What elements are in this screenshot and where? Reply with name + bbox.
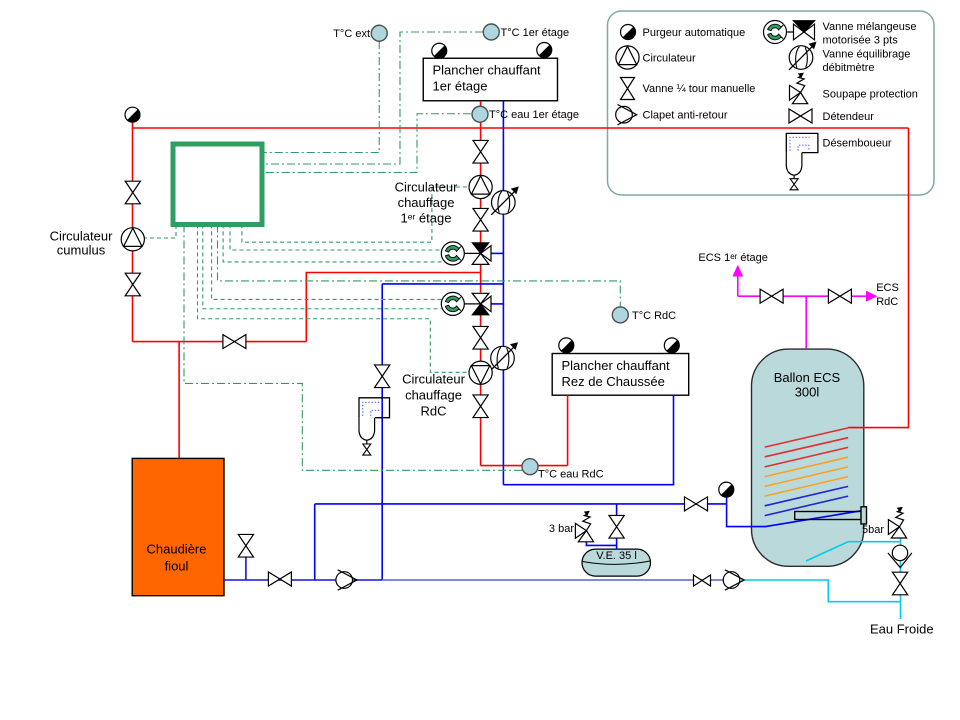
vanne V2 left column lower	[125, 273, 140, 296]
vanne V5 floor1 bottom	[473, 208, 488, 231]
sensor T-ext	[371, 25, 387, 41]
circulateur chauffage rdc	[469, 361, 492, 384]
svg-text:1er étage: 1er étage	[433, 79, 488, 94]
svg-text:Ballon ECS: Ballon ECS	[774, 370, 841, 385]
plancher chauffant 1er etage box	[423, 58, 557, 101]
wire blue crossover to desemboueur branch	[382, 283, 503, 285]
wire red rdc column	[480, 315, 482, 466]
vanne melangeuse motorisee rdc	[441, 292, 491, 315]
sensor T-1er-etage	[483, 24, 499, 40]
svg-text:chauffage: chauffage	[405, 388, 462, 403]
chaudiere fioul boiler	[132, 458, 224, 595]
wire blue boiler return bottom	[224, 579, 382, 581]
wire controller to circulateur cumulus	[143, 224, 176, 238]
svg-text:cumulus: cumulus	[57, 243, 106, 258]
svg-text:5bar: 5bar	[862, 524, 884, 536]
svg-text:motorisée 3 pts: motorisée 3 pts	[823, 35, 899, 47]
legend purgeur automatique icon	[621, 25, 636, 40]
svg-text:T°C ext: T°C ext	[333, 28, 370, 40]
controller regulator box	[173, 144, 262, 225]
tank coil red line 1	[765, 428, 848, 447]
tank coil blue line 2	[765, 496, 848, 515]
wire controller to motor1 lower	[223, 224, 442, 262]
svg-text:Soupape protection: Soupape protection	[823, 89, 918, 101]
wire red right drop to tank coil	[848, 128, 908, 428]
tank coil red line 2	[765, 438, 848, 457]
wire controller to motor2 upper	[212, 224, 442, 299]
wire red main supply top	[133, 122, 909, 128]
soupape 3 bar	[575, 511, 593, 542]
wire blue tank coil return	[727, 504, 862, 527]
circulateur cumulus	[121, 228, 144, 251]
svg-text:débitmètre: débitmètre	[823, 62, 875, 74]
PIPES	[133, 101, 909, 619]
wire sensor T-1er-etage to controller	[262, 32, 483, 164]
wire magenta ecs 1er etage riser	[737, 273, 739, 296]
svg-text:T°C RdC: T°C RdC	[632, 310, 676, 322]
vanne V13 cold water bowtie	[694, 575, 711, 586]
legend vanne equilibrage debitmetre icon	[789, 42, 817, 70]
svg-text:Plancher chauffant: Plancher chauffant	[562, 358, 671, 373]
svg-text:chauffage: chauffage	[398, 195, 455, 210]
wire controller to motor2 lower	[203, 224, 441, 308]
wire sensor T-eau-1er to controller	[262, 114, 471, 173]
vanne magenta ecs left	[760, 289, 783, 303]
legend circulateur icon	[616, 46, 639, 69]
vanne V6 rdc top	[473, 326, 488, 349]
wire red riser to mixing valves	[306, 273, 480, 342]
arrow magenta ecs 1er etage	[732, 265, 743, 277]
vanne V1 left column upper	[125, 181, 140, 204]
wire blue stub mixing valve 2	[492, 303, 504, 305]
purgeur automatique left column	[125, 107, 140, 122]
tank coil orange line 1	[765, 457, 848, 476]
wire red rdc supply horizontal	[481, 465, 568, 467]
svg-text:Détendeur: Détendeur	[823, 111, 875, 123]
svg-text:Vanne mélangeuse: Vanne mélangeuse	[823, 21, 917, 33]
svg-text:T°C eau RdC: T°C eau RdC	[538, 469, 604, 481]
wire controller to circulateur 1er etage	[242, 187, 471, 242]
wire cyan tank inlet	[806, 542, 901, 561]
svg-text:Circulateur: Circulateur	[643, 53, 697, 65]
wire blue soupape 3bar branch	[586, 542, 616, 546]
vanne V9 boiler drain stub	[238, 534, 253, 557]
purgeur floor1 right	[537, 43, 552, 58]
tank coil orange line 3	[765, 477, 848, 497]
LEGEND-BOX	[608, 11, 935, 195]
legend soupape protection icon	[790, 73, 808, 104]
wire cyan cold water riser	[900, 538, 902, 601]
wire cyan eau froide stub	[900, 602, 902, 619]
legend vanne melangeuse motorisee icon	[764, 21, 815, 44]
wire blue expansion vessel lower stub	[616, 538, 618, 549]
svg-text:Vanne équilibrage: Vanne équilibrage	[823, 49, 911, 61]
soupape 5 bar	[888, 507, 906, 538]
wire red rdc floor box drop	[567, 395, 569, 465]
wire red bottom left to boiler	[133, 341, 307, 343]
legend labels	[643, 21, 918, 150]
wire red floor1 column	[480, 101, 482, 243]
svg-text:Circulateur: Circulateur	[50, 229, 114, 244]
wire controller to motor1 upper	[230, 224, 441, 250]
vanne V4 floor1 top	[473, 140, 488, 163]
legend frame	[608, 11, 935, 195]
ballon ECS tank	[752, 349, 864, 566]
svg-text:300l: 300l	[795, 385, 820, 400]
svg-text:T°C eau 1er étage: T°C eau 1er étage	[489, 109, 579, 121]
wire blue stub mixing valve 1	[492, 252, 504, 254]
purgeur rdc left	[559, 338, 574, 353]
vanne V16 eau froide	[893, 572, 908, 595]
svg-text:fioul: fioul	[165, 559, 189, 574]
wire cyan cold water horizontal	[741, 580, 901, 602]
svg-text:RdC: RdC	[876, 296, 898, 308]
clapet vertical cold water	[888, 545, 912, 567]
legend clapet anti-retour icon	[616, 105, 637, 125]
tank coil red line 3	[765, 447, 848, 467]
svg-text:ECS: ECS	[876, 282, 899, 294]
vanne magenta ecs right	[828, 289, 851, 303]
expansion vessel VE 35l	[582, 549, 651, 576]
svg-text:RdC: RdC	[420, 404, 446, 419]
desemboueur	[359, 398, 390, 455]
svg-text:Circulateur: Circulateur	[402, 372, 466, 387]
wire blue-light bottom line to tank	[382, 579, 723, 581]
svg-text:Eau Froide: Eau Froide	[870, 621, 934, 636]
legend desemboueur icon	[786, 133, 818, 189]
wire magenta tank top stub	[805, 296, 807, 348]
wire blue main return line	[315, 503, 727, 505]
CONTAINERS (drawn under pipes)	[132, 58, 864, 595]
svg-text:Clapet anti-retour: Clapet anti-retour	[643, 110, 728, 122]
arrow magenta ecs rdc	[866, 291, 878, 302]
vanne melangeuse motorisee 1er etage	[441, 242, 491, 265]
svg-text:T°C 1er étage: T°C 1er étage	[501, 27, 570, 39]
tank coil blue line 1	[765, 486, 848, 505]
circulateur chauffage 1er etage	[469, 175, 492, 198]
wire blue boiler drain stub	[245, 557, 247, 580]
svg-text:Purgeur automatique: Purgeur automatique	[643, 27, 746, 39]
purgeur rdc right	[664, 338, 679, 353]
wire blue main return left drop	[314, 504, 316, 580]
svg-text:Désemboueur: Désemboueur	[823, 138, 892, 150]
tank flange vertical	[861, 507, 867, 524]
svg-text:V.E. 35 l: V.E. 35 l	[596, 550, 637, 562]
wire sensor T-ext to controller	[262, 41, 379, 153]
tank flange horizontal	[795, 512, 862, 520]
sensor T-eau-1er-etage	[472, 106, 488, 122]
svg-text:Circulateur: Circulateur	[395, 180, 459, 195]
svg-text:Rez de Chaussée: Rez de Chaussée	[562, 374, 665, 389]
purgeur tank return	[719, 482, 734, 497]
plancher chauffant RdC box	[552, 354, 689, 396]
tank coil orange line 2	[765, 467, 848, 487]
sensor T-eau-RdC	[522, 459, 538, 475]
svg-text:Plancher chauffant: Plancher chauffant	[433, 63, 542, 78]
vanne V11 expansion vessel	[609, 515, 624, 538]
vanne V12 tank return bowtie	[685, 497, 708, 511]
wire controller to sensor T-RdC	[218, 224, 621, 306]
vanne equilibrage debitmetre rdc	[491, 342, 519, 370]
svg-text:Vanne ¼ tour manuelle: Vanne ¼ tour manuelle	[643, 83, 756, 95]
wire blue purgeur stub tank return	[726, 498, 728, 504]
vanne V7 rdc bottom	[473, 395, 488, 418]
wire red between mixing valves	[480, 265, 482, 293]
purgeur floor1 left	[432, 43, 447, 58]
vanne V8 desemboueur branch	[375, 365, 390, 388]
vanne equilibrage debitmetre 1er etage	[491, 187, 519, 215]
vanne V3 bypass bowtie	[223, 335, 246, 349]
wire blue desemboueur branch vertical	[381, 284, 383, 580]
svg-text:Chaudière: Chaudière	[147, 542, 207, 557]
svg-text:3 bar: 3 bar	[549, 523, 574, 535]
wire red left column cumulus	[132, 128, 134, 342]
clapet anti-retour boiler return	[336, 570, 357, 590]
wire magenta ecs distribution	[738, 295, 866, 297]
wire controller to circulateur RdC	[198, 224, 471, 372]
clapet anti-retour cold water	[723, 570, 744, 590]
wire controller to sensor T-eau-RdC	[184, 224, 522, 470]
legend detendeur icon	[789, 109, 812, 123]
vanne V10 boiler return bowtie	[268, 572, 291, 586]
wire red boiler riser	[178, 342, 180, 459]
wire blue rdc floor return	[503, 395, 673, 485]
legend vanne quart tour icon	[621, 78, 635, 100]
wire blue return column floor1	[502, 101, 504, 485]
wire blue expansion vessel stub	[616, 504, 618, 516]
sensor T-RdC	[612, 307, 628, 323]
